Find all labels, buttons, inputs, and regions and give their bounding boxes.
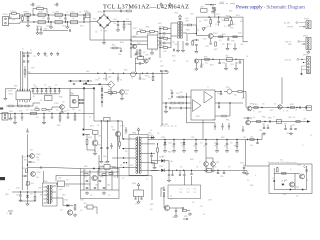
svg-text:103: 103 <box>155 50 158 52</box>
svg-text:C976: C976 <box>220 176 224 178</box>
svg-text:102: 102 <box>111 127 114 129</box>
svg-text:P2: P2 <box>30 50 32 52</box>
svg-text:470u: 470u <box>205 63 208 65</box>
svg-text:R93: R93 <box>30 150 33 152</box>
svg-text:D95: D95 <box>157 133 160 135</box>
svg-text:C970: C970 <box>130 165 134 167</box>
svg-text:R951: R951 <box>204 57 208 59</box>
svg-text:VT901: VT901 <box>213 33 218 35</box>
svg-text:102: 102 <box>47 110 50 112</box>
svg-text:R954: R954 <box>210 65 214 67</box>
svg-text:D951: D951 <box>148 133 152 135</box>
svg-text:222: 222 <box>108 195 111 197</box>
svg-text:J2: J2 <box>302 145 304 147</box>
svg-text:C901: C901 <box>37 6 41 8</box>
svg-text:R911: R911 <box>112 45 115 47</box>
svg-text:VD951: VD951 <box>149 135 154 137</box>
svg-text:TP2: TP2 <box>45 56 48 58</box>
svg-text:K30: K30 <box>117 141 120 143</box>
svg-text:472: 472 <box>222 44 225 46</box>
svg-text:R96: R96 <box>180 92 183 94</box>
svg-text:222: 222 <box>162 33 165 35</box>
svg-text:C963: C963 <box>168 143 172 145</box>
svg-text:U3: U3 <box>89 117 91 119</box>
svg-text:C923: C923 <box>16 195 20 197</box>
svg-text:VT907: VT907 <box>37 172 42 174</box>
svg-text:L902: L902 <box>55 11 59 13</box>
svg-text:R959: R959 <box>290 104 294 106</box>
svg-text:C84: C84 <box>62 102 65 104</box>
svg-text:472: 472 <box>98 78 101 80</box>
svg-text:GBU: GBU <box>93 19 96 21</box>
svg-text:R937: R937 <box>22 168 25 170</box>
svg-text:C904: C904 <box>36 26 40 28</box>
svg-text:103: 103 <box>292 125 295 127</box>
svg-text:47u: 47u <box>215 24 218 26</box>
svg-text:C969: C969 <box>100 166 104 168</box>
svg-text:AC-DET: AC-DET <box>162 123 168 126</box>
svg-text:PC1: PC1 <box>70 93 73 95</box>
svg-text:1815: 1815 <box>125 94 128 96</box>
svg-text:VD981: VD981 <box>297 165 301 167</box>
svg-text:103: 103 <box>152 165 155 167</box>
svg-text:EE19: EE19 <box>59 189 63 191</box>
svg-text:VD957: VD957 <box>159 166 163 168</box>
svg-text:10u: 10u <box>293 117 296 119</box>
svg-text:472: 472 <box>66 12 69 14</box>
svg-text:C926: C926 <box>231 41 235 43</box>
svg-text:223: 223 <box>26 110 29 112</box>
svg-text:471: 471 <box>200 143 203 145</box>
svg-text:L90: L90 <box>36 117 39 119</box>
svg-text:R912: R912 <box>139 29 143 31</box>
svg-text:C967: C967 <box>246 125 250 127</box>
svg-text:T902: T902 <box>44 181 48 183</box>
svg-text:XP904: XP904 <box>303 36 308 38</box>
svg-text:NEC: NEC <box>234 95 237 97</box>
svg-text:C902: C902 <box>46 26 50 28</box>
svg-text:R97: R97 <box>180 192 183 194</box>
svg-text:L911: L911 <box>104 162 107 164</box>
svg-text:C955: C955 <box>212 120 216 122</box>
svg-text:VT902: VT902 <box>54 103 59 105</box>
svg-text:R966: R966 <box>100 177 104 179</box>
svg-text:VT96: VT96 <box>216 162 219 164</box>
svg-text:SB5: SB5 <box>163 145 166 147</box>
svg-text:1815: 1815 <box>72 109 75 111</box>
svg-text:5V: 5V <box>310 135 312 137</box>
svg-text:L951: L951 <box>243 137 246 139</box>
svg-text:C905: C905 <box>113 19 117 21</box>
svg-text:E1: E1 <box>30 5 32 7</box>
svg-text:R957: R957 <box>270 110 274 112</box>
svg-text:NR901: NR901 <box>24 12 29 14</box>
svg-text:C962: C962 <box>107 185 111 187</box>
svg-text:D92: D92 <box>30 194 33 196</box>
svg-text:16V: 16V <box>194 189 197 191</box>
svg-text:C97: C97 <box>187 192 190 194</box>
svg-text:R953: R953 <box>168 99 172 101</box>
svg-text:472: 472 <box>120 165 123 167</box>
svg-text:472: 472 <box>42 18 45 20</box>
svg-text:102: 102 <box>37 160 40 162</box>
svg-text:R966: R966 <box>262 117 266 119</box>
svg-text:104: 104 <box>217 93 220 95</box>
svg-text:R927: R927 <box>214 49 218 51</box>
svg-text:R958: R958 <box>268 118 272 120</box>
svg-text:C921: C921 <box>142 79 146 81</box>
svg-text:SR3: SR3 <box>170 161 173 163</box>
svg-text:VT904: VT904 <box>125 90 129 92</box>
svg-text:103: 103 <box>172 42 175 44</box>
svg-text:0.22: 0.22 <box>219 40 222 42</box>
svg-text:T903: T903 <box>174 13 178 15</box>
svg-text:R962: R962 <box>99 169 103 171</box>
svg-text:R802: R802 <box>14 86 18 88</box>
svg-text:10.5: 10.5 <box>180 189 183 191</box>
svg-text:R982: R982 <box>284 180 287 182</box>
svg-text:1k2: 1k2 <box>207 26 209 28</box>
svg-text:C951: C951 <box>200 64 204 66</box>
svg-text:C952: C952 <box>191 137 195 139</box>
svg-text:FU901: FU901 <box>11 11 16 13</box>
svg-text:C981: C981 <box>240 163 244 165</box>
svg-text:VD951: VD951 <box>161 137 165 139</box>
svg-text:C97: C97 <box>228 167 231 169</box>
svg-text:C95: C95 <box>186 61 189 63</box>
svg-text:C955: C955 <box>230 64 234 66</box>
svg-text:472: 472 <box>194 192 197 194</box>
svg-text:C945: C945 <box>36 157 39 159</box>
svg-text:220: 220 <box>148 77 151 79</box>
svg-text:4k7: 4k7 <box>253 117 255 119</box>
svg-text:R94: R94 <box>10 118 13 120</box>
svg-text:L904: L904 <box>86 71 90 73</box>
svg-text:VD921: VD921 <box>64 200 68 202</box>
svg-text:202: 202 <box>150 130 153 132</box>
svg-text:472: 472 <box>52 12 55 14</box>
svg-text:223: 223 <box>180 143 183 145</box>
svg-text:104: 104 <box>143 52 146 54</box>
svg-text:L903: L903 <box>71 11 75 13</box>
svg-text:R960: R960 <box>84 166 88 168</box>
svg-text:104: 104 <box>55 85 58 87</box>
svg-text:R971: R971 <box>84 203 88 205</box>
svg-text:D922: D922 <box>38 188 42 190</box>
svg-text:VT981: VT981 <box>295 187 299 189</box>
svg-text:C940: C940 <box>9 111 13 113</box>
svg-text:C974: C974 <box>172 217 176 219</box>
svg-text:472: 472 <box>80 210 83 212</box>
svg-text:U901: U901 <box>44 94 48 96</box>
svg-text:R920: R920 <box>229 11 233 13</box>
svg-text:C960: C960 <box>288 117 292 119</box>
svg-text:10k: 10k <box>274 104 277 106</box>
svg-text:473: 473 <box>166 40 169 42</box>
svg-text:+24V 12V: +24V 12V <box>284 59 292 61</box>
svg-text:G: G <box>255 175 256 177</box>
svg-text:VD913: VD913 <box>136 54 141 56</box>
svg-text:474: 474 <box>203 214 206 216</box>
svg-text:100u: 100u <box>172 146 175 148</box>
svg-text:R941: R941 <box>35 107 39 109</box>
svg-text:L91: L91 <box>246 56 249 58</box>
svg-text:472: 472 <box>25 185 28 187</box>
svg-text:103: 103 <box>95 32 98 34</box>
svg-text:D902: D902 <box>133 28 137 30</box>
svg-text:R975: R975 <box>184 216 188 218</box>
svg-text:D905: D905 <box>238 33 242 35</box>
svg-text:C912: C912 <box>118 54 122 56</box>
svg-text:RT902: RT902 <box>84 11 89 13</box>
svg-text:C959: C959 <box>286 133 290 135</box>
svg-text:FB: FB <box>131 78 133 80</box>
svg-text:104: 104 <box>44 85 47 87</box>
svg-text:817C: 817C <box>84 177 87 179</box>
svg-text:470: 470 <box>214 167 217 169</box>
svg-text:C928: C928 <box>205 46 209 48</box>
svg-text:R96: R96 <box>234 146 237 148</box>
svg-text:C954: C954 <box>221 137 225 139</box>
svg-text:N3: N3 <box>33 96 35 98</box>
svg-text:TL: TL <box>207 87 209 89</box>
svg-text:R952: R952 <box>172 56 176 58</box>
svg-text:R916: R916 <box>186 30 190 32</box>
svg-text:C948: C948 <box>31 183 34 185</box>
svg-text:R80: R80 <box>25 102 28 104</box>
svg-text:R932: R932 <box>27 72 31 74</box>
svg-text:471: 471 <box>295 110 298 112</box>
svg-text:+5V: +5V <box>272 178 275 180</box>
svg-text:R925: R925 <box>222 34 226 36</box>
svg-text:C942: C942 <box>19 111 23 113</box>
svg-text:LED: LED <box>280 160 283 162</box>
svg-text:R913: R913 <box>162 27 166 29</box>
svg-text:VD901: VD901 <box>98 12 103 14</box>
svg-text:C98: C98 <box>200 206 203 208</box>
svg-text:R922: R922 <box>226 16 230 18</box>
svg-text:R936: R936 <box>32 162 35 164</box>
svg-text:C967: C967 <box>113 177 117 179</box>
svg-text:L912: L912 <box>58 178 62 180</box>
svg-text:C803: C803 <box>48 87 52 89</box>
svg-text:472: 472 <box>122 178 125 180</box>
svg-text:C96: C96 <box>214 146 217 148</box>
svg-text:C91: C91 <box>135 204 138 206</box>
svg-text:C944: C944 <box>103 156 107 158</box>
svg-text:C95: C95 <box>181 146 184 148</box>
svg-text:C906: C906 <box>117 8 121 10</box>
svg-text:U902: U902 <box>88 137 92 139</box>
svg-text:470u: 470u <box>250 145 253 147</box>
svg-text:N901: N901 <box>147 33 151 35</box>
svg-text:471: 471 <box>56 110 59 112</box>
svg-text:1815: 1815 <box>36 177 39 179</box>
svg-text:R97: R97 <box>242 98 245 100</box>
svg-text:C933: C933 <box>31 68 35 70</box>
svg-text:R945: R945 <box>112 130 116 132</box>
svg-text:C957: C957 <box>258 112 262 114</box>
svg-text:R964: R964 <box>168 152 172 154</box>
svg-text:G1: G1 <box>146 179 148 181</box>
svg-text:C800: C800 <box>34 87 38 89</box>
svg-text:L952: L952 <box>250 137 254 139</box>
svg-text:25V: 25V <box>236 63 239 65</box>
svg-text:10u: 10u <box>247 180 250 182</box>
svg-text:C907: C907 <box>128 24 132 26</box>
svg-text:250V: 250V <box>12 20 15 22</box>
svg-text:L905: L905 <box>30 110 34 112</box>
svg-text:L95: L95 <box>196 167 199 169</box>
svg-text:ON/OFF: ON/OFF <box>287 27 293 29</box>
svg-text:R923: R923 <box>24 160 28 162</box>
svg-text:SB: SB <box>180 167 182 169</box>
svg-text:C914: C914 <box>174 44 178 46</box>
svg-text:470: 470 <box>296 196 299 198</box>
svg-text:35V: 35V <box>162 156 165 158</box>
svg-text:R910: R910 <box>146 27 150 29</box>
svg-text:C903: C903 <box>62 26 66 28</box>
svg-text:5D-9: 5D-9 <box>126 19 129 21</box>
svg-text:VD911: VD911 <box>132 183 136 185</box>
svg-text:Q95: Q95 <box>170 199 173 201</box>
svg-text:R965: R965 <box>190 159 194 161</box>
svg-text:0.1: 0.1 <box>25 18 27 20</box>
svg-text:2n2: 2n2 <box>72 18 75 20</box>
svg-text:471: 471 <box>120 80 123 82</box>
svg-text:104: 104 <box>199 21 202 23</box>
svg-text:R914: R914 <box>162 36 166 38</box>
svg-text:VT906: VT906 <box>36 154 41 156</box>
svg-text:R91: R91 <box>150 209 153 211</box>
svg-text:C930: C930 <box>240 44 244 46</box>
svg-text:R98: R98 <box>284 124 287 126</box>
svg-text:C909: C909 <box>104 31 108 33</box>
svg-text:STB_5V: STB_5V <box>285 41 292 43</box>
svg-text:C943: C943 <box>98 145 102 147</box>
svg-text:8050: 8050 <box>283 194 286 196</box>
svg-text:VT: VT <box>199 162 201 164</box>
svg-text:C919: C919 <box>145 55 149 57</box>
svg-text:2k2: 2k2 <box>224 26 226 28</box>
svg-text:223: 223 <box>41 11 44 13</box>
svg-text:25V: 25V <box>203 146 206 148</box>
svg-text:T903: T903 <box>185 21 189 23</box>
svg-text:431: 431 <box>170 90 173 92</box>
svg-text:R923: R923 <box>236 15 240 17</box>
svg-text:C956: C956 <box>222 63 226 65</box>
svg-text:R902: R902 <box>44 29 48 31</box>
svg-text:L913: L913 <box>205 167 208 169</box>
svg-text:R943: R943 <box>90 126 94 128</box>
svg-text:R976: R976 <box>150 204 154 206</box>
svg-text:R901: R901 <box>80 26 84 28</box>
svg-text:472: 472 <box>40 100 43 102</box>
svg-text:L906: L906 <box>200 7 204 9</box>
svg-text:VT951: VT951 <box>253 104 258 106</box>
svg-text:104: 104 <box>224 146 227 148</box>
svg-text:R95: R95 <box>173 61 176 63</box>
svg-text:102: 102 <box>90 195 93 197</box>
svg-text:R903: R903 <box>120 42 124 44</box>
svg-text:XP905: XP905 <box>303 55 308 57</box>
svg-text:104: 104 <box>33 85 36 87</box>
svg-text:R956: R956 <box>250 104 254 106</box>
svg-text:D906: D906 <box>203 39 207 41</box>
svg-text:T901: T901 <box>132 132 136 134</box>
svg-text:C945: C945 <box>98 136 102 138</box>
svg-text:R99: R99 <box>125 151 128 153</box>
svg-text:TCL L37M61AZ—L42M64AZ: TCL L37M61AZ—L42M64AZ <box>103 4 189 11</box>
svg-text:T902: T902 <box>62 195 66 197</box>
svg-text:R961: R961 <box>83 169 87 171</box>
svg-text:R947: R947 <box>108 89 112 91</box>
svg-text:C958: C958 <box>259 130 263 132</box>
svg-text:470: 470 <box>193 146 196 148</box>
svg-text:C917: C917 <box>162 45 166 47</box>
svg-text:R955: R955 <box>226 120 230 122</box>
svg-text:104: 104 <box>262 124 265 126</box>
svg-text:472: 472 <box>59 18 62 20</box>
svg-text:104: 104 <box>233 24 236 26</box>
svg-text:C964: C964 <box>214 143 218 145</box>
svg-text:104: 104 <box>67 110 70 112</box>
svg-text:R944: R944 <box>57 125 61 127</box>
svg-text:103: 103 <box>230 143 233 145</box>
svg-text:L908: L908 <box>225 56 229 58</box>
svg-text:C926: C926 <box>80 200 84 202</box>
svg-text:P1: P1 <box>22 49 24 51</box>
svg-text:C975: C975 <box>208 200 212 202</box>
svg-text:103: 103 <box>192 202 195 204</box>
svg-text:Q9: Q9 <box>170 196 172 198</box>
svg-text:VT903: VT903 <box>120 126 125 128</box>
svg-text:N801: N801 <box>9 94 13 96</box>
svg-text:XP901: XP901 <box>3 14 8 16</box>
svg-text:RV901: RV901 <box>103 79 108 81</box>
svg-text:VT90: VT90 <box>137 43 141 45</box>
svg-text:C961: C961 <box>95 185 99 187</box>
svg-text:TP1: TP1 <box>33 56 36 58</box>
svg-text:C923: C923 <box>221 20 225 22</box>
svg-text:U952: U952 <box>226 87 230 89</box>
svg-text:J1: J1 <box>303 110 305 112</box>
svg-text:472: 472 <box>286 111 289 113</box>
svg-text:C941: C941 <box>42 123 46 125</box>
svg-text:R946: R946 <box>59 97 63 99</box>
svg-text:CN2: CN2 <box>88 85 91 87</box>
svg-text:C922: C922 <box>216 14 220 16</box>
svg-text:E2: E2 <box>54 5 56 7</box>
svg-text:D93: D93 <box>66 180 69 182</box>
svg-text:817: 817 <box>97 125 100 127</box>
svg-text:C929: C929 <box>160 66 164 68</box>
svg-text:LM339: LM339 <box>8 91 12 93</box>
svg-text:EE16: EE16 <box>185 18 189 20</box>
svg-text:C94: C94 <box>78 110 81 112</box>
svg-text:C915: C915 <box>190 14 194 16</box>
svg-text:C96: C96 <box>262 104 265 106</box>
svg-text:13.5: 13.5 <box>187 189 190 191</box>
svg-text:F902: F902 <box>124 70 128 72</box>
svg-text:C924: C924 <box>16 188 20 190</box>
svg-text:104: 104 <box>160 61 163 63</box>
svg-text:R93: R93 <box>40 195 43 197</box>
svg-text:C925: C925 <box>230 28 234 30</box>
svg-text:R915: R915 <box>158 23 162 25</box>
svg-text:C918: C918 <box>163 51 167 53</box>
svg-text:R908: R908 <box>133 36 137 38</box>
